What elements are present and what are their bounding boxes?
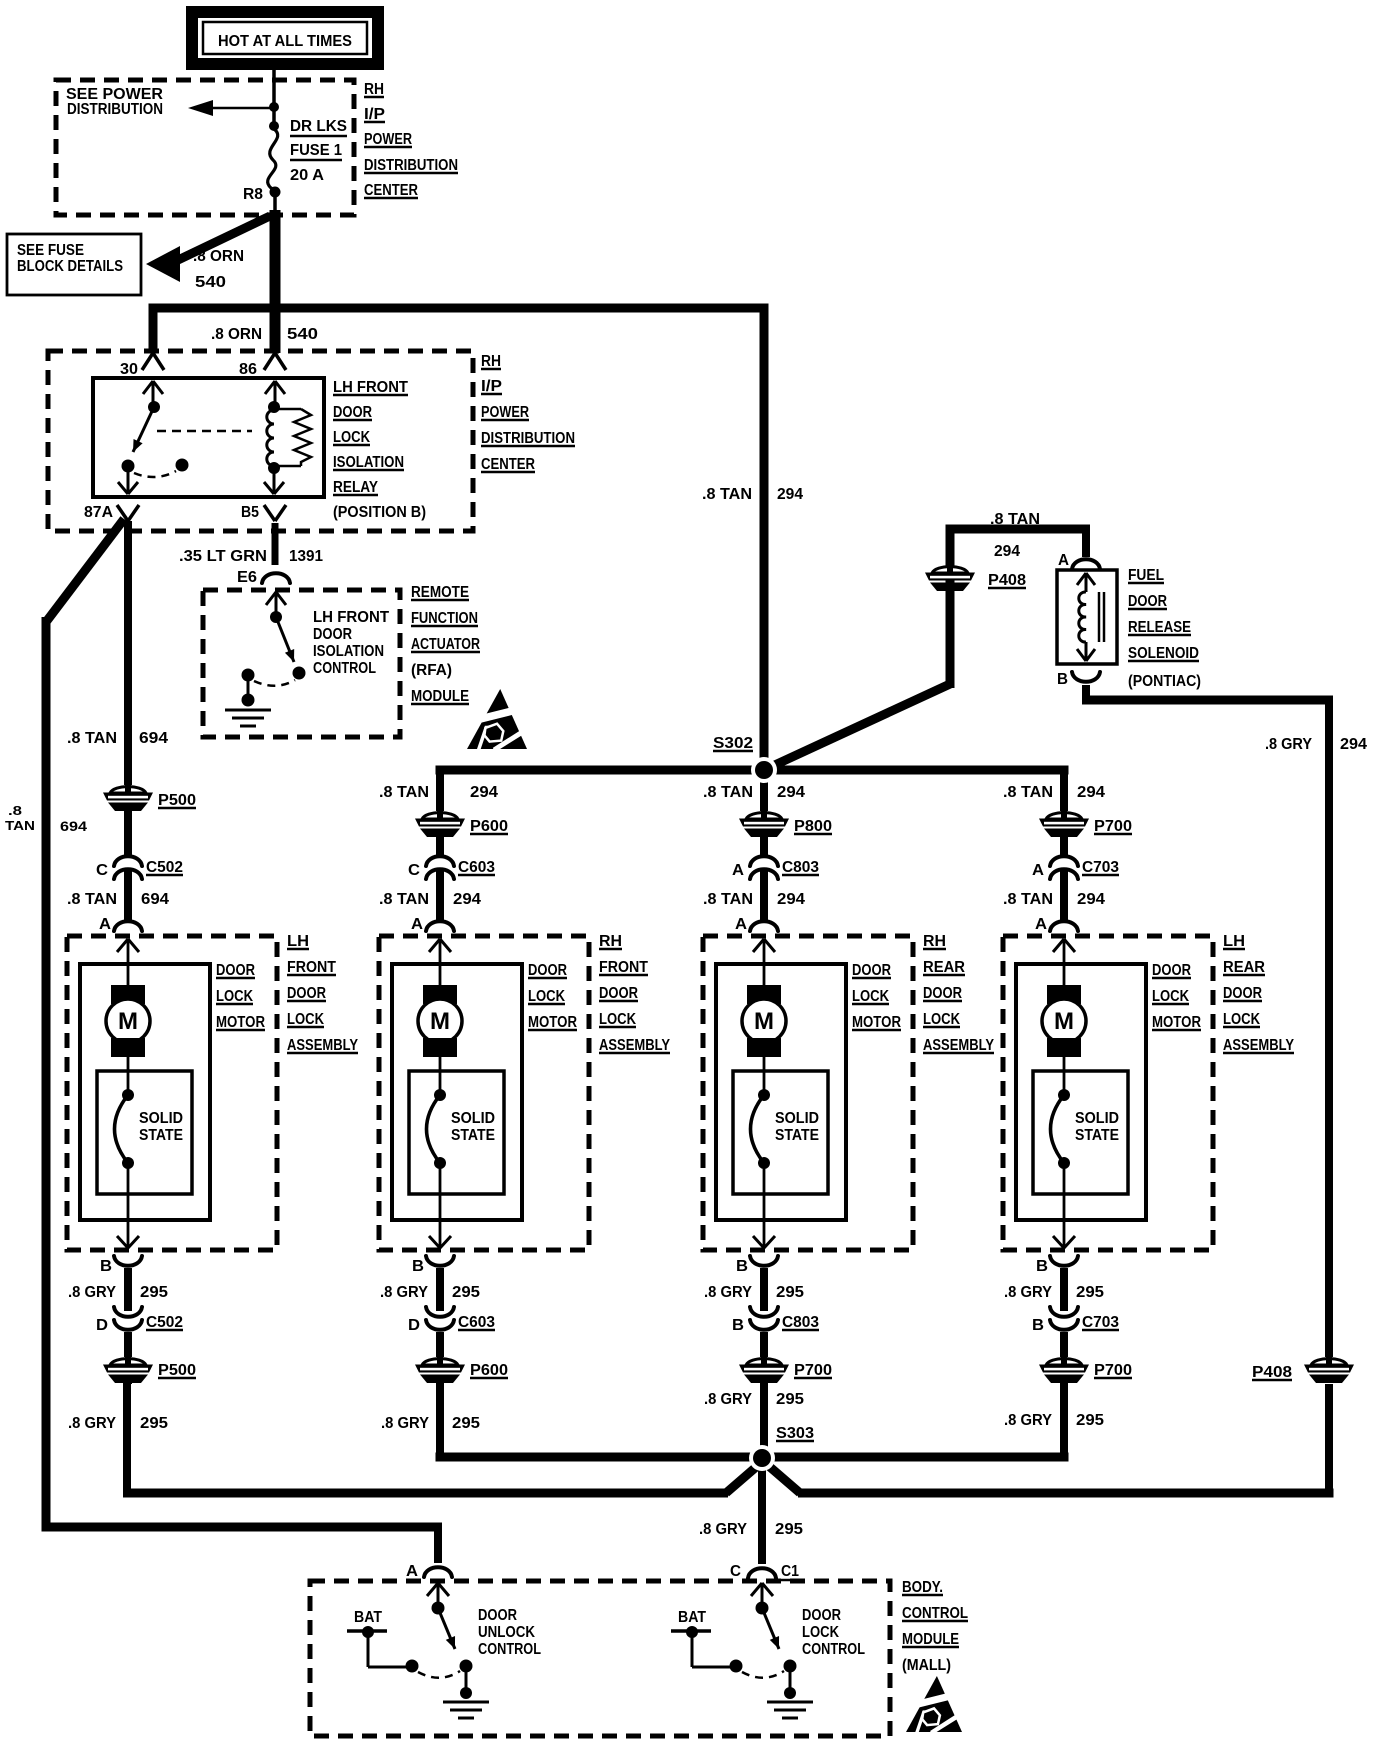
svg-text:C: C: [408, 862, 420, 879]
svg-text:MOTOR: MOTOR: [528, 1014, 577, 1031]
svg-text:STATE: STATE: [1075, 1127, 1119, 1144]
svg-text:DOOR: DOOR: [287, 985, 326, 1002]
svg-text:1391: 1391: [289, 548, 323, 565]
svg-text:.8 ORN: .8 ORN: [193, 248, 244, 265]
svg-text:LOCK: LOCK: [923, 1011, 960, 1028]
svg-text:295: 295: [776, 1284, 804, 1301]
svg-text:694: 694: [139, 730, 168, 747]
svg-text:LOCK: LOCK: [333, 429, 370, 446]
svg-text:A: A: [1035, 916, 1047, 933]
svg-text:694: 694: [60, 818, 87, 834]
svg-text:DOOR: DOOR: [923, 985, 962, 1002]
svg-text:294: 294: [1077, 891, 1105, 908]
svg-text:87A: 87A: [84, 504, 113, 521]
svg-text:C603: C603: [458, 1314, 495, 1331]
svg-text:I/P: I/P: [364, 106, 385, 123]
svg-text:CONTROL: CONTROL: [313, 660, 376, 677]
svg-text:86: 86: [239, 361, 257, 378]
svg-text:R8: R8: [243, 186, 263, 203]
svg-text:.8 GRY: .8 GRY: [699, 1521, 748, 1538]
svg-text:.8 GRY: .8 GRY: [704, 1284, 753, 1301]
svg-text:294: 294: [470, 784, 498, 801]
svg-text:.8 TAN: .8 TAN: [67, 891, 117, 908]
svg-text:540: 540: [195, 274, 226, 291]
svg-text:(RFA): (RFA): [411, 662, 452, 679]
svg-text:C703: C703: [1082, 1314, 1119, 1331]
svg-text:DOOR: DOOR: [1223, 985, 1262, 1002]
svg-text:A: A: [1058, 552, 1069, 569]
svg-text:B: B: [732, 1317, 744, 1334]
svg-text:294: 294: [777, 784, 805, 801]
svg-text:.8 ORN: .8 ORN: [211, 326, 262, 343]
svg-text:LOCK: LOCK: [599, 1011, 636, 1028]
svg-text:.8 GRY: .8 GRY: [704, 1391, 753, 1408]
svg-text:B: B: [100, 1258, 112, 1275]
svg-text:S302: S302: [713, 735, 753, 752]
svg-text:C803: C803: [782, 1314, 819, 1331]
svg-text:P600: P600: [470, 1362, 508, 1379]
svg-text:295: 295: [1076, 1412, 1104, 1429]
svg-text:B: B: [1032, 1317, 1044, 1334]
svg-text:.8 TAN: .8 TAN: [1003, 784, 1053, 801]
svg-text:B: B: [1036, 1258, 1048, 1275]
svg-text:294: 294: [994, 543, 1020, 560]
svg-text:FRONT: FRONT: [287, 959, 336, 976]
svg-text:BLOCK DETAILS: BLOCK DETAILS: [17, 258, 123, 275]
svg-text:C502: C502: [146, 859, 183, 876]
svg-text:.8 TAN: .8 TAN: [702, 486, 752, 503]
svg-text:694: 694: [141, 891, 169, 908]
svg-text:P500: P500: [158, 792, 196, 809]
svg-text:DOOR: DOOR: [216, 962, 255, 979]
svg-text:RELAY: RELAY: [333, 479, 378, 496]
svg-text:LH: LH: [287, 933, 309, 950]
svg-text:P408: P408: [988, 572, 1026, 589]
svg-text:STATE: STATE: [139, 1127, 183, 1144]
svg-text:ASSEMBLY: ASSEMBLY: [923, 1037, 994, 1054]
svg-text:P700: P700: [1094, 818, 1132, 835]
svg-text:A: A: [732, 862, 744, 879]
svg-text:CONTROL: CONTROL: [478, 1641, 541, 1658]
svg-text:POWER: POWER: [364, 131, 412, 148]
svg-text:295: 295: [452, 1284, 480, 1301]
svg-text:C: C: [730, 1563, 741, 1580]
svg-text:294: 294: [453, 891, 481, 908]
svg-text:(POSITION B): (POSITION B): [333, 504, 426, 521]
svg-text:DOOR: DOOR: [1152, 962, 1191, 979]
svg-text:A: A: [1032, 862, 1044, 879]
svg-text:BAT: BAT: [678, 1609, 706, 1626]
svg-text:RH: RH: [481, 353, 501, 370]
svg-text:C: C: [96, 862, 108, 879]
svg-text:BAT: BAT: [354, 1609, 382, 1626]
svg-text:MOTOR: MOTOR: [852, 1014, 901, 1031]
svg-text:SEE FUSE: SEE FUSE: [17, 242, 84, 259]
svg-text:540: 540: [287, 326, 318, 343]
svg-text:DOOR: DOOR: [1128, 593, 1167, 610]
svg-text:.8 TAN: .8 TAN: [379, 891, 429, 908]
svg-text:C703: C703: [1082, 859, 1119, 876]
svg-text:C603: C603: [458, 859, 495, 876]
svg-text:RH: RH: [364, 81, 384, 98]
svg-text:E6: E6: [237, 569, 257, 586]
svg-text:P800: P800: [794, 818, 832, 835]
svg-text:LOCK: LOCK: [1223, 1011, 1260, 1028]
svg-text:LOCK: LOCK: [287, 1011, 324, 1028]
svg-text:.35 LT GRN: .35 LT GRN: [179, 548, 267, 565]
svg-text:LH FRONT: LH FRONT: [313, 609, 389, 626]
svg-text:FUEL: FUEL: [1128, 567, 1164, 584]
svg-text:.8: .8: [8, 803, 22, 818]
svg-text:REAR: REAR: [923, 959, 965, 976]
svg-text:B5: B5: [241, 504, 259, 521]
svg-text:LOCK: LOCK: [852, 988, 889, 1005]
svg-text:M: M: [754, 1008, 774, 1035]
svg-text:ACTUATOR: ACTUATOR: [411, 636, 480, 653]
svg-text:ASSEMBLY: ASSEMBLY: [1223, 1037, 1294, 1054]
svg-text:DOOR: DOOR: [313, 626, 352, 643]
svg-text:MODULE: MODULE: [902, 1631, 959, 1648]
svg-text:295: 295: [140, 1284, 168, 1301]
svg-text:A: A: [735, 916, 747, 933]
svg-text:BODY.: BODY.: [902, 1579, 943, 1596]
svg-text:SOLID: SOLID: [139, 1110, 183, 1127]
svg-text:294: 294: [777, 486, 803, 503]
svg-text:.8 GRY: .8 GRY: [1265, 736, 1313, 753]
svg-text:MODULE: MODULE: [411, 688, 469, 705]
svg-text:P500: P500: [158, 1362, 196, 1379]
svg-text:RH: RH: [923, 933, 946, 950]
svg-text:295: 295: [140, 1415, 168, 1432]
svg-text:SOLENOID: SOLENOID: [1128, 645, 1199, 662]
svg-text:FRONT: FRONT: [599, 959, 648, 976]
svg-text:.8 GRY: .8 GRY: [380, 1284, 429, 1301]
svg-text:A: A: [99, 916, 111, 933]
svg-text:C803: C803: [782, 859, 819, 876]
svg-text:.8 TAN: .8 TAN: [703, 891, 753, 908]
svg-text:DOOR: DOOR: [599, 985, 638, 1002]
svg-text:I/P: I/P: [481, 378, 502, 395]
svg-text:MOTOR: MOTOR: [216, 1014, 265, 1031]
svg-text:ASSEMBLY: ASSEMBLY: [287, 1037, 358, 1054]
svg-text:B: B: [412, 1258, 424, 1275]
svg-text:DISTRIBUTION: DISTRIBUTION: [364, 157, 458, 174]
svg-text:MOTOR: MOTOR: [1152, 1014, 1201, 1031]
svg-text:.8 GRY: .8 GRY: [1004, 1284, 1053, 1301]
svg-text:DOOR: DOOR: [852, 962, 891, 979]
svg-text:P700: P700: [1094, 1362, 1132, 1379]
svg-text:P700: P700: [794, 1362, 832, 1379]
svg-text:CENTER: CENTER: [481, 456, 535, 473]
svg-text:STATE: STATE: [451, 1127, 495, 1144]
svg-text:REAR: REAR: [1223, 959, 1265, 976]
svg-text:ISOLATION: ISOLATION: [333, 454, 404, 471]
svg-text:295: 295: [452, 1415, 480, 1432]
svg-text:REMOTE: REMOTE: [411, 584, 469, 601]
svg-text:30: 30: [120, 361, 138, 378]
svg-text:DOOR: DOOR: [333, 404, 372, 421]
svg-text:DR LKS: DR LKS: [290, 118, 347, 135]
svg-text:295: 295: [1076, 1284, 1104, 1301]
svg-text:.8 GRY: .8 GRY: [381, 1415, 430, 1432]
svg-text:.8 GRY: .8 GRY: [1004, 1412, 1053, 1429]
svg-text:295: 295: [776, 1391, 804, 1408]
svg-text:UNLOCK: UNLOCK: [478, 1624, 535, 1641]
svg-text:SOLID: SOLID: [451, 1110, 495, 1127]
svg-text:C1: C1: [781, 1563, 799, 1580]
svg-text:D: D: [408, 1317, 420, 1334]
svg-text:B: B: [736, 1258, 748, 1275]
svg-text:SOLID: SOLID: [1075, 1110, 1119, 1127]
svg-text:M: M: [1054, 1008, 1074, 1035]
svg-text:CENTER: CENTER: [364, 182, 418, 199]
svg-text:DISTRIBUTION: DISTRIBUTION: [67, 101, 163, 118]
svg-text:D: D: [96, 1317, 108, 1334]
svg-text:FUNCTION: FUNCTION: [411, 610, 478, 627]
svg-text:B: B: [1057, 671, 1068, 688]
svg-text:ISOLATION: ISOLATION: [313, 643, 384, 660]
svg-text:LH FRONT: LH FRONT: [333, 379, 408, 396]
svg-text:RH: RH: [599, 933, 622, 950]
svg-text:(PONTIAC): (PONTIAC): [1128, 673, 1201, 690]
svg-text:.8 GRY: .8 GRY: [68, 1415, 117, 1432]
svg-text:M: M: [118, 1008, 138, 1035]
svg-text:STATE: STATE: [775, 1127, 819, 1144]
svg-text:HOT AT ALL TIMES: HOT AT ALL TIMES: [218, 33, 352, 50]
svg-text:DOOR: DOOR: [802, 1607, 841, 1624]
svg-text:LOCK: LOCK: [528, 988, 565, 1005]
svg-text:(MALL): (MALL): [902, 1657, 951, 1674]
svg-text:20 A: 20 A: [290, 167, 324, 184]
svg-text:.8 TAN: .8 TAN: [379, 784, 429, 801]
svg-text:P408: P408: [1252, 1364, 1292, 1381]
svg-text:SOLID: SOLID: [775, 1110, 819, 1127]
svg-text:P600: P600: [470, 818, 508, 835]
svg-text:.8 TAN: .8 TAN: [990, 511, 1040, 528]
svg-text:CONTROL: CONTROL: [902, 1605, 968, 1622]
svg-text:DISTRIBUTION: DISTRIBUTION: [481, 430, 575, 447]
svg-text:M: M: [430, 1008, 450, 1035]
svg-text:.8 TAN: .8 TAN: [67, 730, 117, 747]
svg-text:FUSE 1: FUSE 1: [290, 142, 342, 159]
svg-text:A: A: [406, 1563, 418, 1580]
svg-text:.8 TAN: .8 TAN: [1003, 891, 1053, 908]
svg-text:LOCK: LOCK: [216, 988, 253, 1005]
svg-text:C502: C502: [146, 1314, 183, 1331]
svg-text:RELEASE: RELEASE: [1128, 619, 1191, 636]
svg-text:294: 294: [777, 891, 805, 908]
svg-text:294: 294: [1340, 736, 1367, 753]
svg-text:LOCK: LOCK: [802, 1624, 839, 1641]
svg-text:DOOR: DOOR: [528, 962, 567, 979]
svg-text:TAN: TAN: [5, 818, 35, 833]
svg-text:DOOR: DOOR: [478, 1607, 517, 1624]
svg-text:LOCK: LOCK: [1152, 988, 1189, 1005]
svg-text:.8 TAN: .8 TAN: [703, 784, 753, 801]
svg-text:294: 294: [1077, 784, 1105, 801]
svg-text:ASSEMBLY: ASSEMBLY: [599, 1037, 670, 1054]
svg-text:.8 GRY: .8 GRY: [68, 1284, 117, 1301]
svg-text:295: 295: [775, 1521, 803, 1538]
svg-text:A: A: [411, 916, 423, 933]
svg-text:POWER: POWER: [481, 404, 529, 421]
svg-text:LH: LH: [1223, 933, 1245, 950]
svg-text:CONTROL: CONTROL: [802, 1641, 865, 1658]
svg-text:S303: S303: [776, 1425, 814, 1442]
